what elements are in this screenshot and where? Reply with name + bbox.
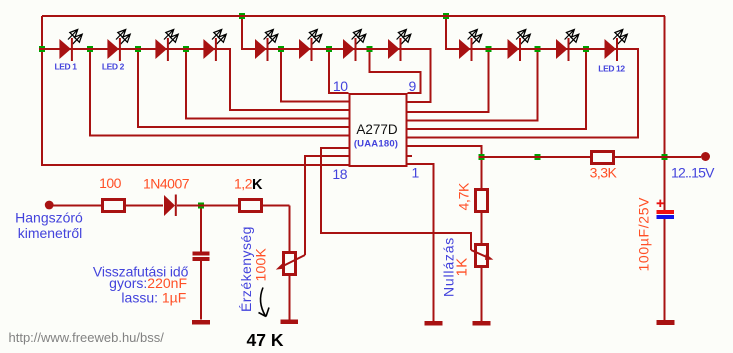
svg-text:A277D: A277D xyxy=(356,122,398,137)
svg-text:K: K xyxy=(252,177,263,193)
svg-text:Nullázás: Nullázás xyxy=(441,237,457,297)
svg-text:lassu: 1µF: lassu: 1µF xyxy=(121,289,186,305)
svg-text:kimenetről: kimenetről xyxy=(18,225,83,241)
svg-text:100K: 100K xyxy=(253,248,269,282)
svg-text:3,3K: 3,3K xyxy=(590,165,618,181)
svg-text:1N4007: 1N4007 xyxy=(143,176,190,192)
svg-text:1,2: 1,2 xyxy=(234,176,253,192)
svg-text:LED 2: LED 2 xyxy=(102,62,125,72)
svg-text:9: 9 xyxy=(409,78,417,94)
svg-text:(UAA180): (UAA180) xyxy=(354,139,398,150)
svg-text:100µF/25V: 100µF/25V xyxy=(636,197,652,272)
svg-text:12..15V: 12..15V xyxy=(671,165,715,181)
svg-text:1: 1 xyxy=(412,165,420,181)
svg-text:47 K: 47 K xyxy=(247,330,284,350)
svg-text:4,7K: 4,7K xyxy=(456,182,472,211)
svg-text:Érzékenység: Érzékenység xyxy=(238,226,254,312)
svg-text:LED 12: LED 12 xyxy=(598,64,625,74)
svg-text:10: 10 xyxy=(333,78,348,94)
svg-text:18: 18 xyxy=(332,166,347,182)
svg-text:LED 1: LED 1 xyxy=(54,62,77,72)
svg-text:100: 100 xyxy=(99,175,122,191)
svg-text:http://www.freeweb.hu/bss/: http://www.freeweb.hu/bss/ xyxy=(9,330,165,345)
svg-text:Hangszóró: Hangszóró xyxy=(15,210,83,226)
